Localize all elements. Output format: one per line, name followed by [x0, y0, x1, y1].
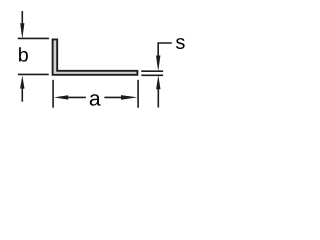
dimension s upper extension line	[141, 70, 163, 72]
dimension a left extension line	[52, 80, 54, 108]
label a	[90, 94, 101, 106]
dimension s leader line	[158, 43, 172, 57]
dimension a line right segment with right arrow	[104, 96, 122, 98]
dimension s down arrow head	[156, 56, 160, 72]
dimension s up arrow	[157, 88, 159, 107]
dimension b up arrow	[21, 88, 23, 102]
dimension a line left segment with left arrow	[67, 96, 86, 98]
dimension s lower extension line	[141, 74, 163, 76]
dimension b down arrow	[21, 11, 23, 24]
dimension b bottom extension line	[18, 73, 49, 75]
label s	[176, 38, 185, 49]
label b	[19, 47, 28, 61]
dimension a right extension line	[137, 80, 139, 108]
angle profile L-section	[53, 39, 138, 74]
dimension b top extension line	[18, 37, 49, 39]
